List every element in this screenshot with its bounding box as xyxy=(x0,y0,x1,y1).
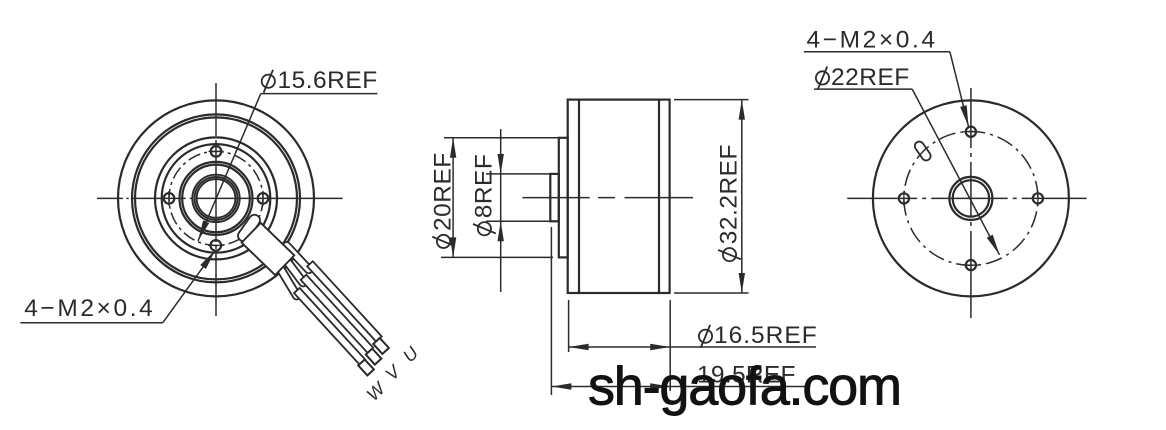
dia symbol of 20REF xyxy=(432,235,455,248)
centerline vertical right view xyxy=(970,88,972,318)
19.5 arrow right xyxy=(650,383,670,389)
leader line 4-M2 left xyxy=(163,250,216,323)
centerline middle view xyxy=(522,197,693,199)
watermark sh-gaofa.com xyxy=(588,357,901,417)
hub circle r33.8 xyxy=(182,165,250,233)
dia symbol of 8REF xyxy=(473,222,496,235)
dia20 arrow top xyxy=(450,138,456,158)
circle r54.3 xyxy=(162,144,271,253)
dia20 extension bottom xyxy=(441,256,553,258)
dia8 arrow top xyxy=(498,154,504,174)
underline dia22 xyxy=(814,88,912,90)
hole W tick xyxy=(168,191,170,206)
4-M2x0.4 right label xyxy=(807,27,938,54)
dia16.5 extension left xyxy=(568,300,570,352)
ring circle r81 xyxy=(135,117,297,279)
dia16.5 extension right xyxy=(669,300,671,391)
dia32.2 extension bottom xyxy=(674,292,749,294)
dia15.6REF label xyxy=(278,67,378,94)
dia16.5 text xyxy=(714,322,818,349)
dia20 extension top xyxy=(444,137,560,139)
dia16.5 arrow left xyxy=(569,344,589,350)
hole N right view xyxy=(966,127,976,137)
underline of 15.6REF xyxy=(261,93,378,95)
bearing circle r23.7 xyxy=(192,175,239,222)
hub circle r36.5 xyxy=(180,162,253,235)
underline 4-M2 right xyxy=(804,51,950,53)
terminal V xyxy=(366,349,382,365)
hole W left view xyxy=(164,193,175,204)
wire W lead xyxy=(294,288,365,365)
dia20 arrow bottom xyxy=(450,237,456,257)
arrowhead dia15.6 xyxy=(198,220,209,241)
terminal W xyxy=(358,360,374,376)
boss dia8 xyxy=(550,174,559,221)
svg-text:W: W xyxy=(363,377,391,405)
dia8 text xyxy=(470,154,497,219)
dia symbol of 15.6REF xyxy=(262,75,275,88)
shaft circle r18.2 xyxy=(953,180,989,216)
wire V inner segment xyxy=(280,253,309,288)
svg-text:V: V xyxy=(381,360,405,384)
arrowhead dia22 xyxy=(987,235,1000,255)
outer circle right view r98 xyxy=(873,100,1069,296)
hole E right view xyxy=(1033,193,1043,203)
dia8 extension bottom xyxy=(486,220,557,222)
outer circle r98 xyxy=(118,100,314,296)
19.5 arrow left xyxy=(551,383,571,389)
hole W tick right view xyxy=(903,191,905,206)
19.5 text xyxy=(697,362,796,389)
dia symbol of 16.5REF xyxy=(699,330,712,343)
svg-text:4−M2×0.4: 4−M2×0.4 xyxy=(24,295,155,322)
hole S tick right view xyxy=(963,264,978,266)
svg-text:4−M2×0.4: 4−M2×0.4 xyxy=(807,27,938,54)
shaft circle r21.5 xyxy=(949,177,992,220)
centerline vertical left view xyxy=(215,83,217,316)
bolt circle dash-dot r47 xyxy=(169,151,263,245)
hole S tick xyxy=(208,244,223,246)
svg-text:8REF: 8REF xyxy=(470,154,497,219)
svg-text:16.5REF: 16.5REF xyxy=(714,322,818,349)
flange dia20 xyxy=(559,138,568,258)
terminal U xyxy=(373,338,389,354)
bearing circle r19.4 xyxy=(197,179,236,218)
4-M2x0.4 left label xyxy=(24,295,155,322)
wire U lead xyxy=(307,261,382,341)
hole S right view xyxy=(966,260,976,270)
dia32.2 text xyxy=(716,144,743,244)
hole E left view xyxy=(258,193,269,204)
dia8 arrow bottom xyxy=(498,221,504,241)
body right inner line xyxy=(658,100,660,293)
hole N tick right view xyxy=(963,131,978,133)
circle r61 xyxy=(155,137,277,259)
centerline horizontal left view xyxy=(97,197,343,199)
svg-text:sh-gaofa.com: sh-gaofa.com xyxy=(588,357,901,417)
dia symbol of 22REF xyxy=(816,71,829,84)
dia22REF label xyxy=(831,64,910,91)
bolt circle dash-dot r67 xyxy=(904,131,1038,265)
hole S left view xyxy=(211,240,222,251)
bearing circle r21.5 xyxy=(195,177,238,220)
svg-text:32.2REF: 32.2REF xyxy=(716,144,743,244)
wire W inner segment xyxy=(276,265,302,301)
svg-text:22REF: 22REF xyxy=(831,64,910,91)
underline of 4-M2x0.4 left xyxy=(20,322,162,324)
leader dia22 xyxy=(912,89,999,255)
body left inner line xyxy=(578,100,580,293)
centerline horizontal right view xyxy=(847,197,1086,199)
dia8 extension top xyxy=(486,173,557,175)
dia32.2 arrow bottom xyxy=(739,273,745,293)
arrowhead 4-M2 right xyxy=(960,105,968,126)
dia20 text xyxy=(430,152,457,231)
wire exit slot xyxy=(236,213,262,244)
hole W right view xyxy=(899,193,909,203)
leader line dia15.6 xyxy=(198,94,261,241)
svg-text:U: U xyxy=(399,342,423,366)
19.5 extension left xyxy=(550,227,552,395)
dia16.5 arrow right xyxy=(650,344,670,350)
wire U inner segment xyxy=(281,240,314,274)
dia32.2 arrow top xyxy=(739,100,745,120)
hole E tick right view xyxy=(1037,191,1039,206)
slot right view xyxy=(913,140,932,162)
hole N left view xyxy=(211,146,222,157)
motor body outline xyxy=(568,100,670,293)
19.5 dimension line xyxy=(551,386,807,388)
leader 4-M2 right xyxy=(950,52,969,127)
ring circle r84 xyxy=(132,114,300,282)
dia20 dimension line xyxy=(452,138,454,258)
hole N tick xyxy=(209,150,224,152)
hole E tick xyxy=(262,191,264,206)
dia32.2 extension top xyxy=(674,99,749,101)
svg-text:20REF: 20REF xyxy=(430,152,457,231)
wire V lead xyxy=(301,275,373,353)
dia32.2 dimension line xyxy=(741,100,743,293)
svg-text:15.6REF: 15.6REF xyxy=(278,67,378,94)
dia16.5 dimension line xyxy=(569,346,816,348)
dia8 dimension line xyxy=(500,129,502,292)
cable sleeve xyxy=(242,223,295,275)
arrowhead 4-M2 left xyxy=(200,250,215,269)
dia symbol of 32.2REF xyxy=(718,248,741,261)
